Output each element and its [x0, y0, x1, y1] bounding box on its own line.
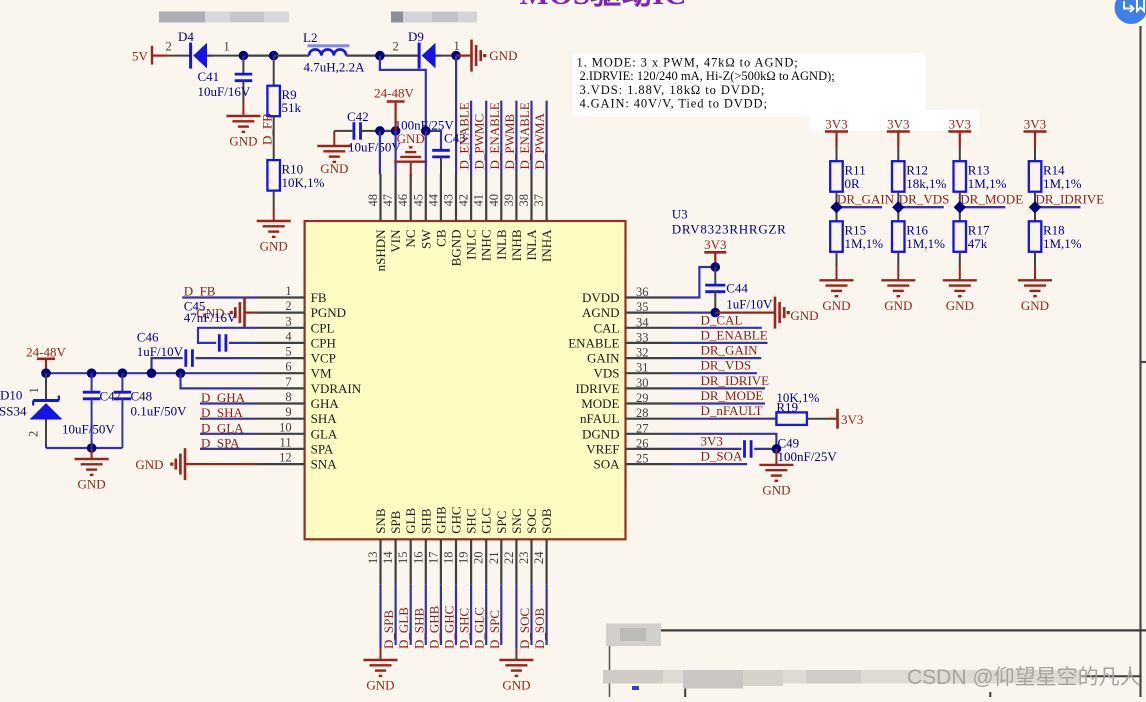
pin 44 CB: [426, 174, 448, 247]
svg-text:SPC: SPC: [494, 511, 509, 534]
wire pin 14: [395, 584, 397, 645]
svg-text:GND: GND: [397, 131, 425, 146]
svg-text:35: 35: [636, 300, 649, 314]
wire: [200, 418, 257, 420]
resistor R16: [892, 221, 945, 252]
svg-text:C46: C46: [137, 330, 159, 345]
ground: [897, 266, 899, 280]
svg-text:GND: GND: [260, 239, 288, 254]
wire L2 to D9: [346, 54, 419, 56]
net label DR_IDRIVE: [1035, 192, 1104, 208]
ground (sideways) at D9: [456, 40, 517, 72]
ground: [380, 648, 382, 660]
wire pin 24: [545, 584, 547, 645]
wire pin45 drop: [425, 131, 427, 174]
pin labels D9: [393, 39, 460, 54]
svg-text:20: 20: [472, 552, 486, 565]
svg-text:34: 34: [636, 315, 649, 329]
ground: [515, 648, 517, 660]
svg-text:17: 17: [426, 552, 440, 565]
svg-text:INHA: INHA: [539, 229, 554, 262]
power port 24-48V: [374, 86, 414, 131]
svg-text:18: 18: [442, 552, 456, 565]
wire rail to L2: [274, 54, 309, 56]
pin 41 INHC: [472, 174, 494, 261]
pin 3 CPL: [257, 314, 335, 335]
svg-text:D_ENABLE: D_ENABLE: [517, 102, 532, 169]
svg-text:27: 27: [636, 421, 649, 435]
svg-text:25: 25: [636, 452, 649, 466]
capacitor C45: [184, 299, 257, 352]
svg-text:24: 24: [532, 551, 546, 564]
svg-text:SOB: SOB: [539, 508, 554, 534]
censored patch title block B (long bar): [603, 670, 1080, 689]
svg-text:D4: D4: [178, 29, 194, 44]
svg-text:VDRAIN: VDRAIN: [311, 381, 362, 396]
svg-text:INLA: INLA: [524, 229, 539, 261]
inductor L2: [303, 30, 365, 75]
svg-text:0.1uF/50V: 0.1uF/50V: [131, 404, 188, 419]
svg-text:7: 7: [285, 375, 291, 389]
svg-text:GND: GND: [489, 48, 517, 63]
wire: [1034, 147, 1036, 162]
svg-text:48: 48: [366, 194, 380, 207]
pin 22 SNC: [502, 509, 524, 585]
junction: [239, 51, 249, 61]
wire pin 41: [485, 101, 487, 175]
svg-text:4.GAIN: 40V/V, Tied to DVDD;: 4.GAIN: 40V/V, Tied to DVDD;: [580, 97, 768, 111]
svg-text:D_GHB: D_GHB: [426, 605, 441, 649]
svg-text:SW: SW: [418, 229, 433, 249]
pin 31 VDS: [593, 361, 672, 381]
pin 36 DVDD: [582, 285, 672, 305]
svg-text:VIN: VIN: [388, 229, 403, 253]
capacitor C42: [334, 109, 401, 155]
pin 47 VIN: [381, 174, 403, 253]
wire AGND: [672, 312, 715, 314]
svg-text:3V3: 3V3: [825, 117, 847, 132]
svg-text:C47: C47: [100, 389, 122, 404]
svg-text:INHB: INHB: [509, 229, 524, 261]
pin 9 SHA: [257, 405, 337, 426]
svg-text:1uF/10V: 1uF/10V: [726, 297, 773, 312]
notes text block: [573, 53, 979, 132]
wire: [672, 372, 757, 374]
junction: [118, 368, 128, 378]
svg-text:ENABLE: ENABLE: [568, 335, 619, 350]
wire BGND net from D9: [455, 56, 457, 175]
wire: [672, 387, 765, 389]
svg-text:SS34: SS34: [0, 403, 27, 418]
resistor R18: [1029, 221, 1082, 252]
pin 35 AGND: [582, 300, 672, 320]
pin 20 GLC: [472, 508, 494, 585]
svg-text:1: 1: [27, 387, 41, 393]
wire pin 17: [440, 584, 442, 645]
svg-text:1M,1%: 1M,1%: [1043, 176, 1082, 191]
junction: [954, 201, 966, 213]
pin labels D4: [166, 40, 230, 54]
svg-text:GND: GND: [366, 678, 394, 693]
svg-text:VCP: VCP: [311, 351, 336, 366]
svg-text:DRV8323RHRGZR: DRV8323RHRGZR: [672, 222, 787, 237]
junction: [375, 51, 385, 61]
svg-text:4.7uH,2.2A: 4.7uH,2.2A: [304, 60, 366, 75]
junction: [269, 51, 279, 61]
pin 18 GHC: [442, 506, 464, 584]
ground: [836, 266, 838, 280]
pin 23 SOC: [517, 509, 539, 585]
pin 7 VDRAIN: [257, 375, 362, 396]
svg-text:29: 29: [636, 391, 649, 405]
svg-text:GND: GND: [135, 457, 163, 472]
wire VIN rail: [380, 130, 396, 132]
svg-text:5: 5: [285, 345, 291, 359]
designator U3: [672, 207, 787, 237]
pin 16 SHB: [411, 508, 433, 584]
wire VDRAIN: [181, 373, 258, 388]
wire: [836, 252, 838, 266]
wire: [959, 252, 961, 266]
junction: [375, 126, 385, 136]
svg-text:3V3: 3V3: [841, 412, 863, 427]
svg-text:DR_IDRIVE: DR_IDRIVE: [1036, 192, 1105, 207]
pin 14 SPB: [381, 510, 403, 584]
wire: [836, 147, 838, 162]
wire pin 40: [500, 101, 502, 175]
svg-text:12: 12: [279, 451, 292, 465]
wire pin 39: [515, 101, 517, 175]
svg-text:21: 21: [487, 552, 501, 565]
power port 3V3 (DR_VDS divider): [887, 117, 910, 147]
diode D4: [168, 29, 244, 69]
svg-text:1. MODE: 3 x PWM, 47kΩ to AGND: 1. MODE: 3 x PWM, 47kΩ to AGND;: [577, 56, 799, 70]
pin 39 INHB: [502, 174, 524, 261]
capacitor C43: [432, 131, 465, 175]
wire SW to C43: [426, 131, 441, 150]
svg-text:13: 13: [366, 552, 380, 565]
ground: [775, 449, 777, 465]
svg-text:DGND: DGND: [582, 426, 620, 441]
svg-text:GND: GND: [884, 298, 912, 313]
ground: [1034, 266, 1036, 280]
junction: [711, 262, 721, 272]
wire: [1034, 192, 1036, 222]
wire to ground: [515, 584, 517, 648]
pin 28 nFAUL: [580, 406, 672, 426]
svg-text:24-48V: 24-48V: [374, 86, 414, 101]
svg-text:2.IDRVIE: 120/240 mA, Hi-Z(>50: 2.IDRVIE: 120/240 mA, Hi-Z(>500kΩ to AGN…: [580, 69, 835, 83]
svg-text:SHB: SHB: [418, 508, 433, 534]
wire: [200, 402, 257, 404]
wire pin 18: [455, 584, 457, 645]
pin 37 INHA: [532, 174, 554, 262]
svg-text:11: 11: [280, 435, 292, 449]
svg-text:26: 26: [636, 436, 649, 450]
svg-text:D_FB: D_FB: [260, 113, 275, 145]
svg-text:SNA: SNA: [311, 457, 338, 472]
svg-text:47nF/16V: 47nF/16V: [184, 310, 237, 325]
ground: [333, 145, 335, 147]
pin 38 INLA: [517, 174, 539, 261]
wire pin 23: [530, 584, 532, 645]
wire pin 16: [425, 584, 427, 645]
svg-text:GND: GND: [790, 308, 818, 323]
svg-text:nSHDN: nSHDN: [373, 229, 388, 272]
net label DR_VDS: [898, 192, 949, 208]
svg-text:DVDD: DVDD: [582, 290, 620, 305]
svg-text:43: 43: [442, 194, 456, 207]
pin 48 nSHDN: [366, 174, 388, 271]
junction: [391, 126, 401, 136]
ground: [273, 208, 275, 222]
svg-text:8: 8: [285, 390, 291, 404]
svg-text:GND: GND: [78, 477, 106, 492]
svg-text:16: 16: [411, 552, 425, 565]
net label DR_MODE: [960, 192, 1023, 208]
pin 15 GLB: [396, 507, 418, 584]
svg-text:D_SPB: D_SPB: [381, 610, 396, 649]
svg-text:30: 30: [636, 376, 649, 390]
wire 5V rail: [243, 54, 273, 56]
wire: [836, 192, 838, 222]
power port 3V3 (DR_IDRIVE divider): [1024, 117, 1047, 147]
sheet border right edge: [1141, 26, 1146, 697]
svg-text:14: 14: [381, 551, 395, 564]
svg-text:INLC: INLC: [464, 230, 479, 260]
pin 12 SNA: [257, 451, 337, 472]
pin 5 VCP: [257, 345, 336, 366]
capacitor C48: [114, 373, 187, 448]
ground: [959, 266, 961, 280]
diode D10: [0, 373, 63, 448]
pin 32 GAIN: [587, 346, 672, 366]
pin 46 NC: [396, 174, 418, 248]
wire: [959, 147, 961, 162]
svg-text:D_PWMA: D_PWMA: [532, 113, 547, 170]
pin 26 VREF: [586, 436, 672, 456]
svg-text:22: 22: [502, 552, 516, 565]
svg-text:CB: CB: [433, 229, 448, 247]
wire pin 15: [410, 584, 412, 645]
pin 1 FB: [257, 284, 327, 305]
wire VM rail: [46, 372, 257, 374]
svg-text:CPH: CPH: [311, 335, 336, 350]
svg-text:D_SOB: D_SOB: [532, 607, 547, 649]
junction: [772, 444, 782, 454]
censored patch 2: [391, 12, 477, 23]
resistor R10: [267, 160, 324, 191]
wire: [897, 192, 899, 222]
wire: [200, 448, 257, 450]
wire bottom rail: [46, 447, 122, 449]
svg-text:10uF/16V: 10uF/16V: [198, 84, 251, 99]
resistor R12: [892, 161, 947, 192]
pin 11 SPA: [257, 435, 334, 456]
svg-text:C48: C48: [131, 389, 153, 404]
svg-text:D_PWMB: D_PWMB: [502, 114, 517, 170]
svg-text:D_ENABLE: D_ENABLE: [701, 327, 768, 342]
svg-text:46: 46: [396, 194, 410, 207]
svg-text:3V3: 3V3: [1024, 117, 1046, 132]
pin 43 BGND: [442, 174, 464, 266]
svg-text:D_SHB: D_SHB: [411, 607, 426, 649]
svg-text:37: 37: [532, 194, 546, 207]
junction: [176, 368, 186, 378]
svg-text:10: 10: [279, 420, 292, 434]
svg-text:44: 44: [426, 193, 440, 206]
wire pin 20: [485, 584, 487, 645]
svg-text:3V3: 3V3: [701, 433, 723, 448]
svg-text:5V: 5V: [132, 49, 149, 64]
svg-text:D_SPC: D_SPC: [487, 610, 502, 649]
svg-text:24-48V: 24-48V: [26, 344, 66, 359]
svg-text:100nF/25V: 100nF/25V: [778, 449, 838, 464]
svg-text:DR_GAIN: DR_GAIN: [837, 192, 895, 207]
svg-text:CSDN @仰望星空的凡人: CSDN @仰望星空的凡人: [907, 666, 1141, 689]
wire R9 to R10: [273, 116, 275, 160]
svg-text:2: 2: [393, 40, 399, 54]
resistor R14: [1029, 161, 1082, 192]
svg-text:42: 42: [457, 194, 471, 207]
svg-text:D_GLB: D_GLB: [396, 607, 411, 649]
svg-text:4: 4: [285, 329, 292, 343]
svg-text:28: 28: [636, 406, 649, 420]
pin 40 INLB: [487, 174, 509, 260]
ground: [242, 103, 244, 116]
svg-text:0R: 0R: [845, 176, 861, 191]
svg-text:GHB: GHB: [433, 506, 448, 534]
svg-text:DR_VDS: DR_VDS: [701, 358, 752, 373]
svg-text:3V3: 3V3: [704, 237, 726, 252]
svg-text:GND: GND: [502, 678, 530, 693]
power port 3V3: [704, 237, 726, 267]
pin 42 INLC: [457, 174, 479, 260]
svg-text:3.VDS: 1.88V, 18kΩ to DVDD;: 3.VDS: 1.88V, 18kΩ to DVDD;: [580, 83, 766, 97]
title block: [609, 630, 1146, 697]
svg-text:SNB: SNB: [373, 508, 388, 534]
pin 29 MODE: [581, 391, 672, 411]
pin 34 CAL: [594, 315, 673, 335]
resistor R11: [830, 161, 866, 192]
junction: [421, 126, 431, 136]
capacitor C44: [705, 267, 773, 313]
ground (sideways) on pin 35: [715, 297, 818, 329]
pin 4 CPH: [257, 329, 336, 350]
net label DR_GAIN: [837, 192, 895, 208]
wire to ground: [379, 584, 381, 648]
resistor R13: [954, 161, 1007, 192]
svg-text:C42: C42: [347, 109, 369, 124]
capacitor C47: [62, 373, 122, 448]
svg-text:GLB: GLB: [403, 507, 418, 533]
svg-text:SPB: SPB: [388, 510, 403, 533]
svg-text:D_SOC: D_SOC: [517, 608, 532, 649]
svg-text:39: 39: [502, 194, 516, 207]
junction: [892, 201, 904, 213]
svg-text:2: 2: [166, 40, 172, 54]
svg-text:1uF/10V: 1uF/10V: [137, 344, 184, 359]
ground (sideways) on pin 2: [196, 297, 257, 329]
svg-text:BGND: BGND: [449, 230, 464, 267]
censored dot blue: [632, 686, 639, 690]
wire pin48 drop: [379, 131, 381, 174]
wire pin 38: [530, 101, 532, 175]
pin 2 PGND: [257, 299, 346, 320]
svg-text:MODE: MODE: [581, 396, 619, 411]
svg-text:15: 15: [396, 552, 410, 565]
resistor R19: [672, 390, 829, 425]
svg-text:DR_MODE: DR_MODE: [701, 388, 764, 403]
wire pin 37: [545, 101, 547, 175]
svg-text:FB: FB: [311, 290, 327, 305]
svg-text:D_ENABLE: D_ENABLE: [487, 102, 502, 169]
pin 8 GHA: [257, 390, 339, 411]
svg-text:GND: GND: [229, 134, 257, 149]
svg-text:C41: C41: [198, 69, 220, 84]
junction: [87, 443, 97, 453]
pin 25 SOA: [593, 452, 672, 472]
svg-text:9: 9: [285, 405, 291, 419]
svg-text:D_FB: D_FB: [184, 283, 216, 298]
svg-text:AGND: AGND: [582, 305, 620, 320]
svg-text:GHC: GHC: [449, 506, 464, 533]
svg-text:3V3: 3V3: [949, 117, 971, 132]
pin 33 ENABLE: [568, 330, 672, 350]
resistor R17: [954, 221, 990, 252]
wire pin 42: [470, 101, 472, 175]
pin 10 GLA: [257, 420, 338, 441]
resistor R15: [830, 221, 883, 252]
power port 3V3 (sideways): [829, 409, 863, 429]
svg-text:DR_GAIN: DR_GAIN: [701, 343, 759, 358]
svg-text:D_SOA: D_SOA: [701, 449, 744, 464]
svg-text:33: 33: [636, 330, 649, 344]
pin 13 SNB: [366, 508, 388, 584]
pin 17 GHB: [426, 506, 448, 584]
svg-text:C44: C44: [726, 281, 748, 296]
svg-text:D_nFAULT: D_nFAULT: [701, 403, 763, 418]
svg-text:DR_VDS: DR_VDS: [899, 192, 950, 207]
svg-text:GND: GND: [946, 298, 974, 313]
svg-text:1M,1%: 1M,1%: [845, 236, 884, 251]
svg-text:3: 3: [285, 314, 291, 328]
diode D9: [408, 29, 456, 69]
wire SW net from rail: [380, 56, 426, 131]
svg-text:D9: D9: [408, 29, 424, 44]
junction: [711, 308, 721, 318]
svg-text:GND: GND: [320, 161, 348, 176]
svg-text:41: 41: [472, 194, 486, 207]
svg-text:CAL: CAL: [594, 320, 620, 335]
svg-text:NC: NC: [403, 230, 418, 248]
pin 27 DGND: [582, 421, 672, 441]
CSDN floating icon: [1115, 0, 1146, 24]
wire: [959, 192, 961, 222]
svg-text:PGND: PGND: [311, 305, 346, 320]
svg-text:D_CAL: D_CAL: [701, 312, 743, 327]
power port 3V3 (DR_GAIN divider): [825, 117, 848, 147]
wire DGND: [672, 434, 776, 449]
pin 6 VM: [257, 360, 332, 381]
svg-text:L2: L2: [303, 30, 317, 45]
svg-text:D_GHC: D_GHC: [442, 606, 457, 649]
svg-text:SHC: SHC: [464, 509, 479, 534]
svg-text:47k: 47k: [968, 236, 988, 251]
svg-text:SNC: SNC: [509, 509, 524, 534]
junction: [451, 51, 461, 61]
svg-text:SPA: SPA: [311, 441, 334, 456]
